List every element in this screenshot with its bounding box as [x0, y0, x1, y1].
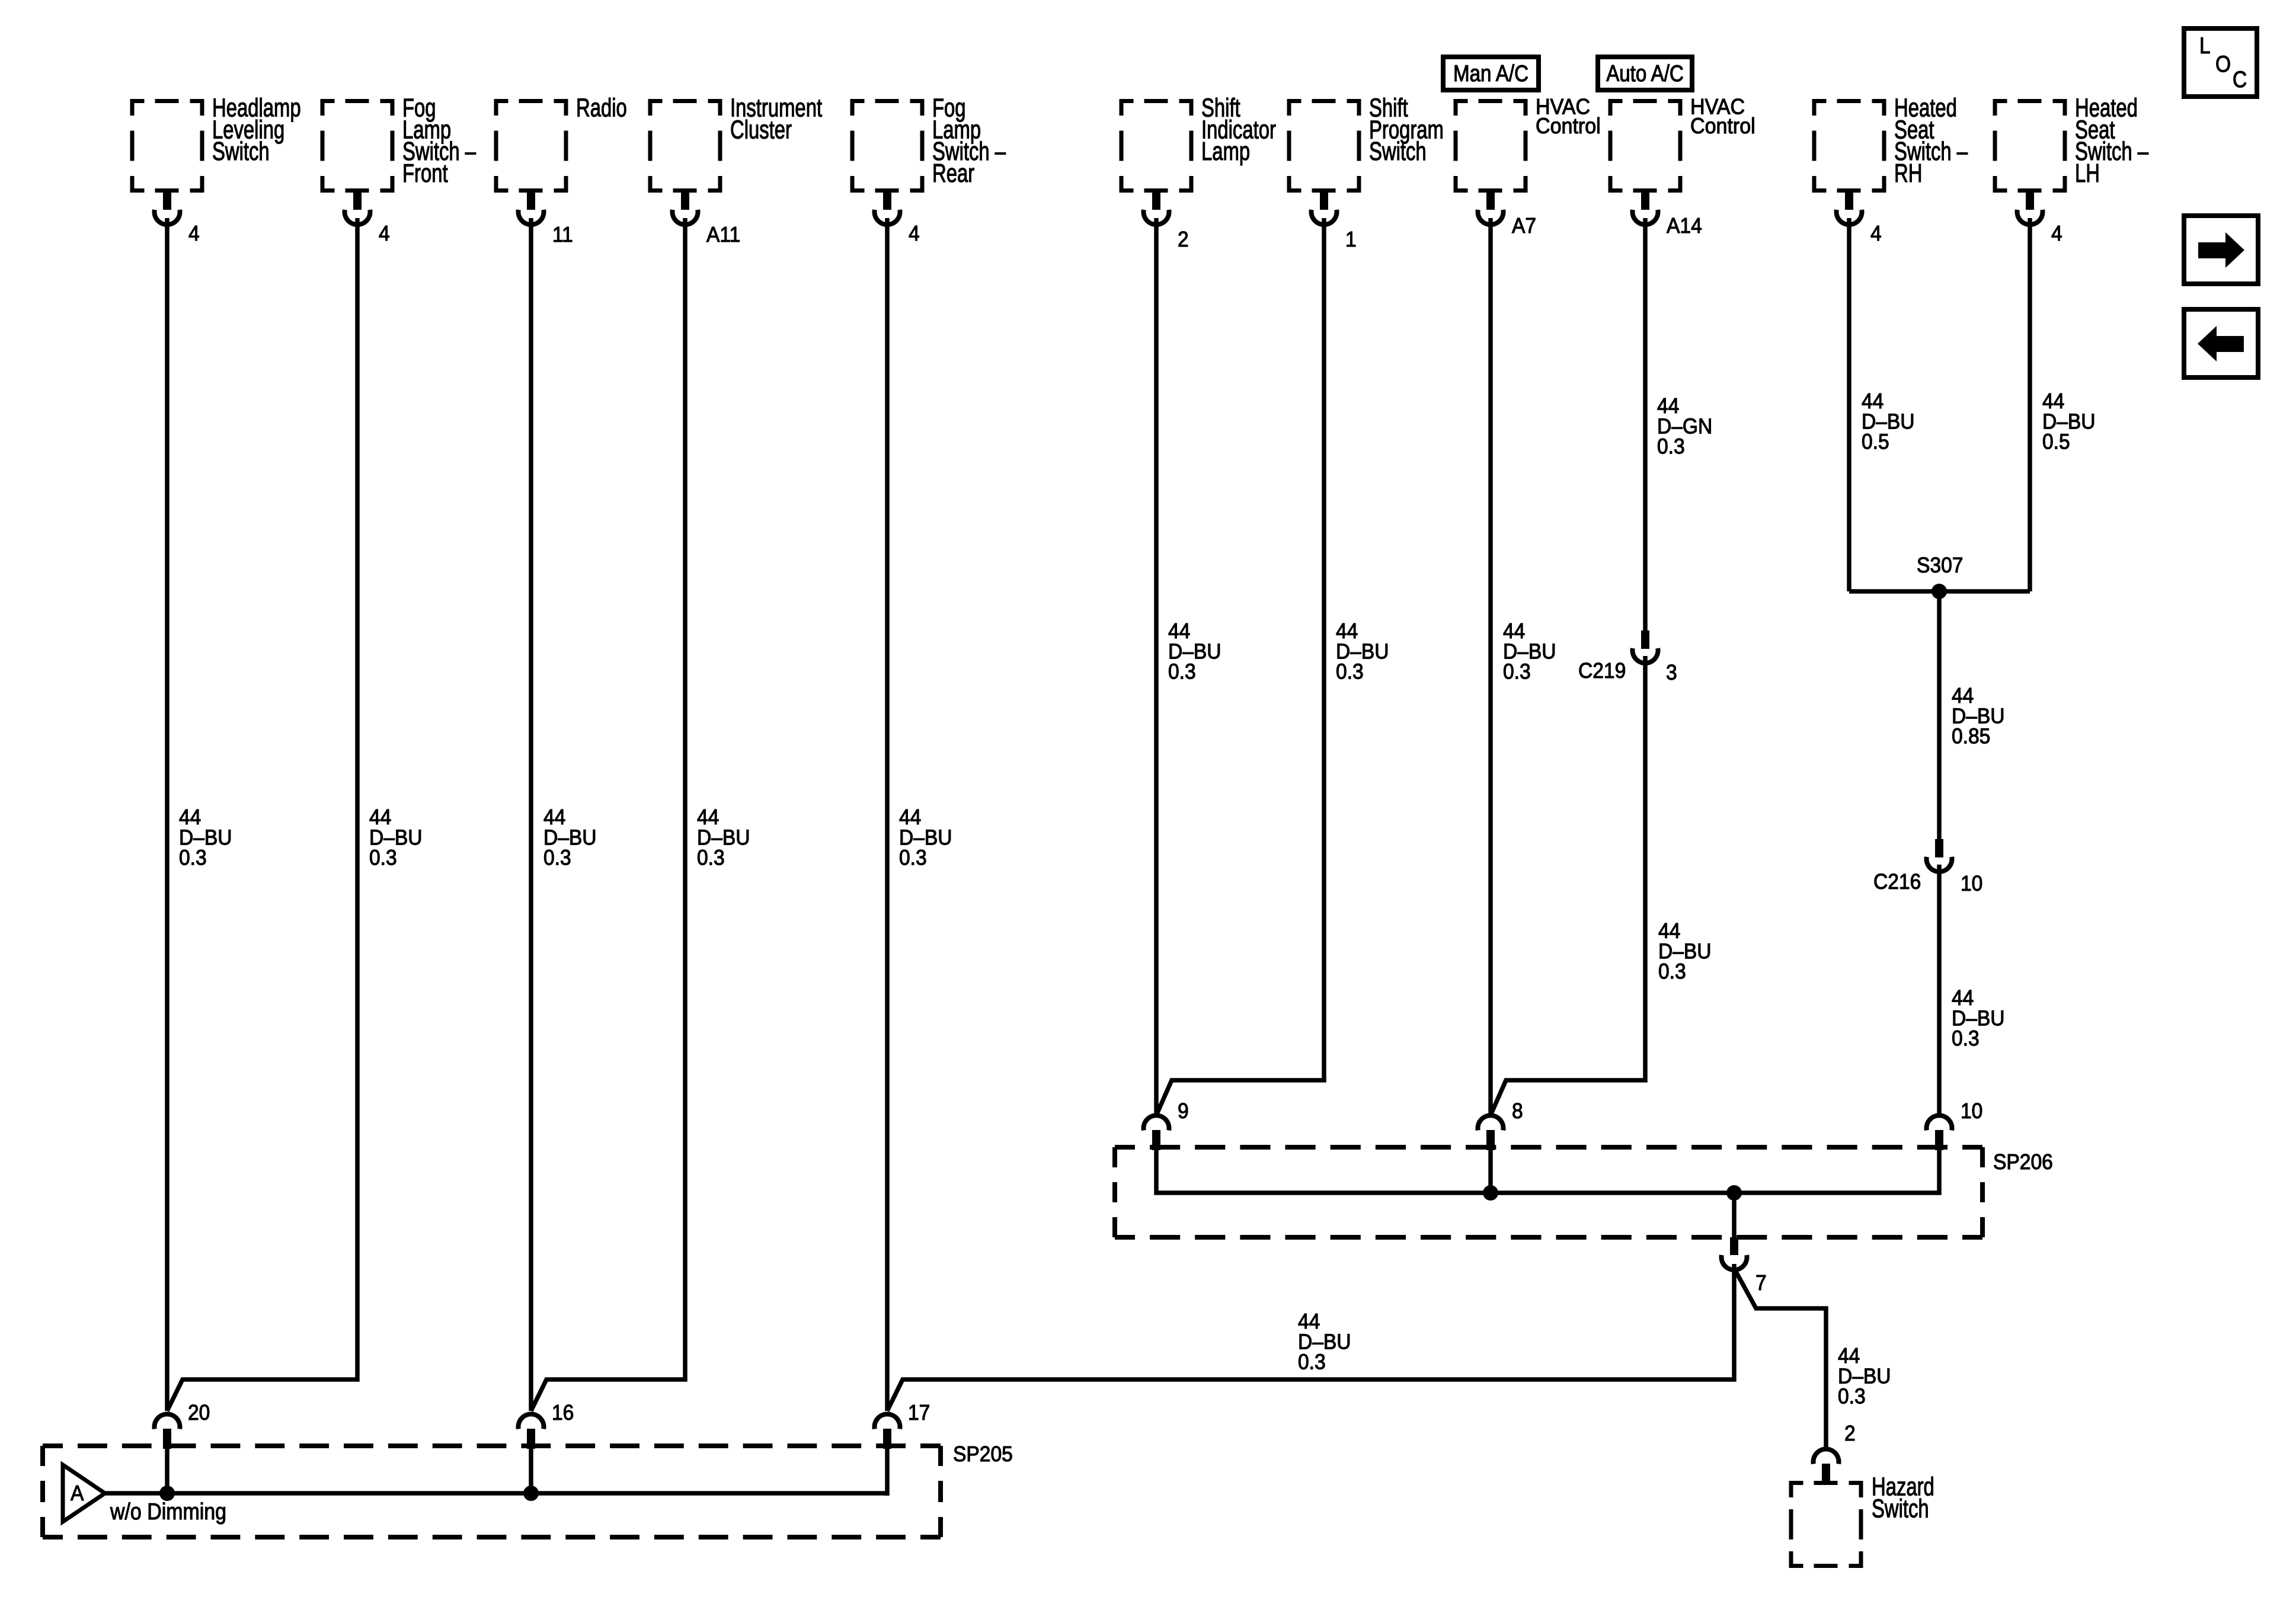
label Headlamp Leveling Switch: [212, 94, 301, 166]
svg-text:7: 7: [1755, 1271, 1767, 1295]
pin number 1: [1345, 228, 1357, 252]
svg-text:0.3: 0.3: [1298, 1350, 1326, 1374]
svg-text:L: L: [2199, 33, 2211, 59]
pin number 17: [908, 1401, 930, 1425]
svg-text:0.5: 0.5: [1862, 430, 1889, 454]
wire splice S307 to C216 pin 10: [1937, 591, 1942, 839]
svg-text:RH: RH: [1894, 159, 1922, 188]
connector box HVAC Control: [1609, 99, 1683, 193]
wire label 44 D-BU 0.3 at x=623: [369, 805, 423, 870]
SP205 pin terminal 20: [155, 1414, 180, 1449]
svg-text:2: 2: [1844, 1422, 1856, 1446]
pin terminal 2 of Hazard Switch: [1814, 1449, 1839, 1484]
svg-text:0.5: 0.5: [2042, 430, 2070, 454]
pin terminal 4 of Fog Lamp Switch - Rear: [875, 192, 900, 225]
label SP205: [953, 1442, 1013, 1467]
wire label 44 D-BU 0.3 at x=1176: [697, 805, 750, 870]
pin number 10: [1961, 1099, 1982, 1124]
pin number A14: [1667, 214, 1702, 238]
wire SP206 internal bus: [1156, 1150, 1939, 1193]
svg-text:4: 4: [909, 222, 920, 246]
wire label 44 D-BU 0.3 (C216 to SP206): [1952, 986, 2005, 1051]
wire SP206 pin 7 to Hazard Switch pin 2: [1736, 1272, 1826, 1449]
connector box Shift Program Switch: [1287, 99, 1361, 193]
svg-text:Auto A/C: Auto A/C: [1606, 61, 1684, 87]
label Instrument Cluster: [730, 94, 822, 144]
legend box arrow left: [2184, 309, 2258, 377]
inline connector C219 pin 3: [1633, 630, 1658, 663]
svg-text:Switch: Switch: [1369, 137, 1427, 166]
svg-text:0.3: 0.3: [1657, 434, 1685, 459]
pin number 4: [2051, 222, 2062, 246]
svg-text:4: 4: [188, 222, 200, 246]
label w/o Dimming: [110, 1499, 226, 1525]
pin terminal 11 of Radio: [519, 192, 544, 225]
svg-text:4: 4: [379, 222, 390, 246]
svg-text:Front: Front: [402, 159, 448, 188]
svg-text:Switch: Switch: [1872, 1494, 1929, 1523]
connector box Headlamp Leveling Switch: [130, 99, 204, 193]
svg-text:0.3: 0.3: [697, 846, 725, 870]
label Fog Lamp Switch - Rear: [932, 94, 1006, 188]
pin terminal 1 of Shift Program Switch: [1312, 192, 1337, 225]
connector box Fog Lamp Switch - Front: [321, 99, 395, 193]
wire Heated Seat Switch LH pin 4 to splice S307: [2028, 218, 2032, 591]
svg-text:10: 10: [1961, 1099, 1982, 1124]
label HVAC Control: [1536, 94, 1601, 138]
wire label 44 D-BU 0.3 at x=1971: [1168, 619, 1221, 684]
wire label 44 D-BU 0.3 (long run to SP205): [1298, 1310, 1351, 1374]
pin number A11: [706, 223, 740, 247]
svg-text:Switch: Switch: [212, 137, 270, 166]
svg-text:0.3: 0.3: [1838, 1384, 1866, 1409]
label S307: [1917, 553, 1963, 578]
svg-text:A14: A14: [1667, 214, 1702, 238]
pin number 4: [909, 222, 920, 246]
pin terminal 2 of Shift Indicator Lamp: [1144, 192, 1169, 225]
pin terminal A7 of HVAC Control: [1478, 192, 1504, 225]
svg-text:SP206: SP206: [1993, 1150, 2053, 1174]
svg-text:17: 17: [908, 1401, 930, 1425]
label SP206: [1993, 1150, 2053, 1174]
label HVAC Control: [1690, 94, 1755, 138]
svg-text:C: C: [2233, 66, 2247, 92]
pin number 9: [1178, 1099, 1189, 1124]
SP205 pin terminal 16: [519, 1414, 544, 1449]
splice pack SP205 box: [40, 1443, 943, 1539]
wire SP206 pin 7 stem: [1732, 1193, 1737, 1238]
svg-text:S307: S307: [1917, 553, 1963, 578]
label Radio: [576, 94, 627, 122]
svg-text:0.3: 0.3: [369, 846, 397, 870]
label Shift Program Switch: [1369, 94, 1444, 166]
splice pack SP206 box: [1112, 1145, 1985, 1240]
junction dot at 2926,2013: [1726, 1185, 1742, 1201]
SP206 pin terminal 8: [1478, 1115, 1504, 1150]
wire SP206 pin 7 to SP205 pin 17: [887, 1264, 1734, 1411]
svg-text:Control: Control: [1536, 114, 1601, 139]
label Heated Seat Switch - LH: [2075, 94, 2149, 188]
wire Fog Lamp Switch Front pin 4 to SP205 pin 20: [167, 218, 357, 1411]
pin terminal 4 of Fog Lamp Switch - Front: [345, 192, 370, 225]
wire SP205 pin 20 riser: [165, 1448, 170, 1493]
wire label 44 D-BU 0.3 at x=2254: [1336, 619, 1389, 684]
pin number 4: [188, 222, 200, 246]
svg-text:2: 2: [1178, 228, 1189, 252]
svg-text:Lamp: Lamp: [1201, 137, 1250, 166]
pin terminal 4 of Headlamp Leveling Switch: [155, 192, 180, 225]
pin number 7: [1755, 1271, 1767, 1295]
wire SP205 pin 17 riser: [885, 1448, 890, 1496]
wire Shift Indicator Lamp pin 2 to SP206 pin 9: [1154, 218, 1159, 1115]
SP206 pin terminal 7: [1722, 1237, 1747, 1270]
svg-text:0.3: 0.3: [1952, 1026, 1980, 1051]
junction dot at 3272,998: [1932, 584, 1947, 599]
wire label 44 D-BU 0.5 (Seat RH): [1862, 389, 1915, 454]
tag Man A/C: [1443, 57, 1539, 90]
label Heated Seat Switch - RH: [1894, 94, 1968, 188]
svg-text:0.3: 0.3: [1503, 660, 1531, 684]
svg-text:16: 16: [552, 1401, 574, 1425]
pin terminal 4 of Heated Seat Switch - LH: [2017, 192, 2043, 225]
svg-text:Cluster: Cluster: [730, 116, 792, 144]
wire label 44 D-BU 0.3 at x=917: [543, 805, 597, 870]
wire label 44 D-BU 0.3 (C219 to SP206): [1658, 919, 1712, 984]
pin number 8: [1512, 1099, 1523, 1124]
svg-text:8: 8: [1512, 1099, 1523, 1124]
svg-text:O: O: [2215, 51, 2231, 77]
connector box HVAC Control: [1454, 99, 1528, 193]
pin terminal 4 of Heated Seat Switch - RH: [1837, 192, 1862, 225]
wire HVAC Control pin A14 to C219 pin 3: [1643, 218, 1648, 630]
label Fog Lamp Switch - Front: [402, 94, 477, 188]
wire label 44 D-BU 0.3 at x=302: [179, 805, 232, 870]
svg-text:0.3: 0.3: [899, 846, 927, 870]
wire Instrument Cluster pin A11 to SP205 pin 16: [531, 218, 685, 1411]
junction dot at 2515,2013: [1483, 1185, 1498, 1201]
wire label 44 D-BU 0.3 (to Hazard Switch): [1838, 1344, 1891, 1409]
wire label 44 D-BU 0.85 (S307 to C216): [1952, 684, 2005, 748]
junction dot at 282,2520: [159, 1486, 175, 1501]
svg-text:4: 4: [2051, 222, 2062, 246]
junction dot at 896,2520: [523, 1486, 539, 1501]
wire label 44 D-GN 0.3 (Auto A/C): [1657, 394, 1712, 459]
svg-text:0.3: 0.3: [543, 846, 571, 870]
wire label 44 D-BU 0.3 at x=1517: [899, 805, 952, 870]
wire C219 pin 3 to SP206 pin 8: [1491, 656, 1645, 1115]
svg-text:11: 11: [552, 223, 573, 247]
svg-text:0.3: 0.3: [1658, 959, 1686, 984]
wire Shift Program Switch pin 1 to SP206 pin 9: [1156, 218, 1324, 1115]
SP206 pin terminal 10: [1927, 1115, 1952, 1150]
svg-text:LH: LH: [2075, 159, 2100, 188]
svg-text:A7: A7: [1512, 214, 1536, 238]
wire SP206 pin 8 riser: [1488, 1150, 1493, 1193]
connector box Instrument Cluster: [648, 99, 722, 193]
wire SP205 pin 16 riser: [529, 1448, 533, 1493]
wire Fog Lamp Switch Rear pin 4 to SP205 pin 17: [885, 218, 890, 1411]
svg-text:w/o Dimming: w/o Dimming: [110, 1499, 226, 1525]
label Shift Indicator Lamp: [1201, 94, 1276, 166]
svg-text:3: 3: [1666, 661, 1677, 685]
option arrow A (w/o Dimming): [63, 1465, 105, 1522]
svg-text:20: 20: [188, 1401, 210, 1425]
svg-text:9: 9: [1178, 1099, 1189, 1124]
svg-text:C219: C219: [1578, 659, 1626, 683]
svg-text:0.3: 0.3: [1336, 660, 1364, 684]
connector box Radio: [494, 99, 568, 193]
connector box Hazard Switch: [1789, 1481, 1863, 1568]
svg-text:0.85: 0.85: [1952, 724, 1990, 748]
pin number 11: [552, 223, 573, 247]
pin terminal A14 of HVAC Control: [1633, 192, 1658, 225]
legend box L O C: [2184, 28, 2257, 97]
svg-text:C216: C216: [1873, 870, 1921, 894]
pin number 20: [188, 1401, 210, 1425]
SP205 pin terminal 17: [875, 1414, 900, 1449]
pin number A7: [1512, 214, 1536, 238]
wire SP205 internal bus: [105, 1491, 887, 1496]
connector box Heated Seat Switch - LH: [1993, 99, 2067, 193]
pin number 4: [1870, 222, 1882, 246]
pin number 2: [1178, 228, 1189, 252]
wire splice S307 crossbar: [1849, 589, 2030, 594]
pin number 10: [1961, 872, 1982, 896]
wire label 44 D-BU 0.3 at x=2536: [1503, 619, 1556, 684]
pin number 4: [379, 222, 390, 246]
wire label 44 D-BU 0.5 (Seat LH): [2042, 389, 2096, 454]
connector box Heated Seat Switch - RH: [1812, 99, 1886, 193]
wire C216 pin 10 to SP206 pin 10: [1937, 865, 1942, 1115]
inline connector C216 pin 10: [1927, 839, 1952, 872]
svg-text:SP205: SP205: [953, 1442, 1013, 1467]
SP206 pin terminal 9: [1144, 1115, 1169, 1150]
svg-text:Man A/C: Man A/C: [1453, 61, 1528, 87]
svg-text:A11: A11: [706, 223, 740, 247]
label C219: [1578, 659, 1626, 683]
svg-text:0.3: 0.3: [179, 846, 207, 870]
wire Heated Seat Switch RH pin 4 to splice S307: [1847, 218, 1851, 591]
legend box arrow right: [2184, 216, 2258, 284]
pin number 3: [1666, 661, 1677, 685]
pin terminal A11 of Instrument Cluster: [673, 192, 698, 225]
svg-text:4: 4: [1870, 222, 1882, 246]
label C216: [1873, 870, 1921, 894]
tag Auto A/C: [1598, 57, 1692, 90]
svg-text:Radio: Radio: [576, 94, 627, 122]
connector box Fog Lamp Switch - Rear: [850, 99, 925, 193]
wire HVAC Control pin A7 to SP206 pin 8: [1488, 218, 1493, 1115]
svg-text:10: 10: [1961, 872, 1982, 896]
pin number 16: [552, 1401, 574, 1425]
label Hazard Switch: [1872, 1473, 1934, 1523]
svg-text:0.3: 0.3: [1168, 660, 1196, 684]
svg-text:Rear: Rear: [932, 159, 974, 188]
svg-text:1: 1: [1345, 228, 1357, 252]
connector box Shift Indicator Lamp: [1120, 99, 1194, 193]
svg-text:A: A: [71, 1481, 84, 1506]
pin number 2: [1844, 1422, 1856, 1446]
svg-text:Control: Control: [1690, 114, 1755, 139]
wire Headlamp Leveling Switch pin 4 to SP205 pin 20: [165, 218, 170, 1411]
wire Radio pin 11 to SP205 pin 16: [529, 218, 533, 1411]
